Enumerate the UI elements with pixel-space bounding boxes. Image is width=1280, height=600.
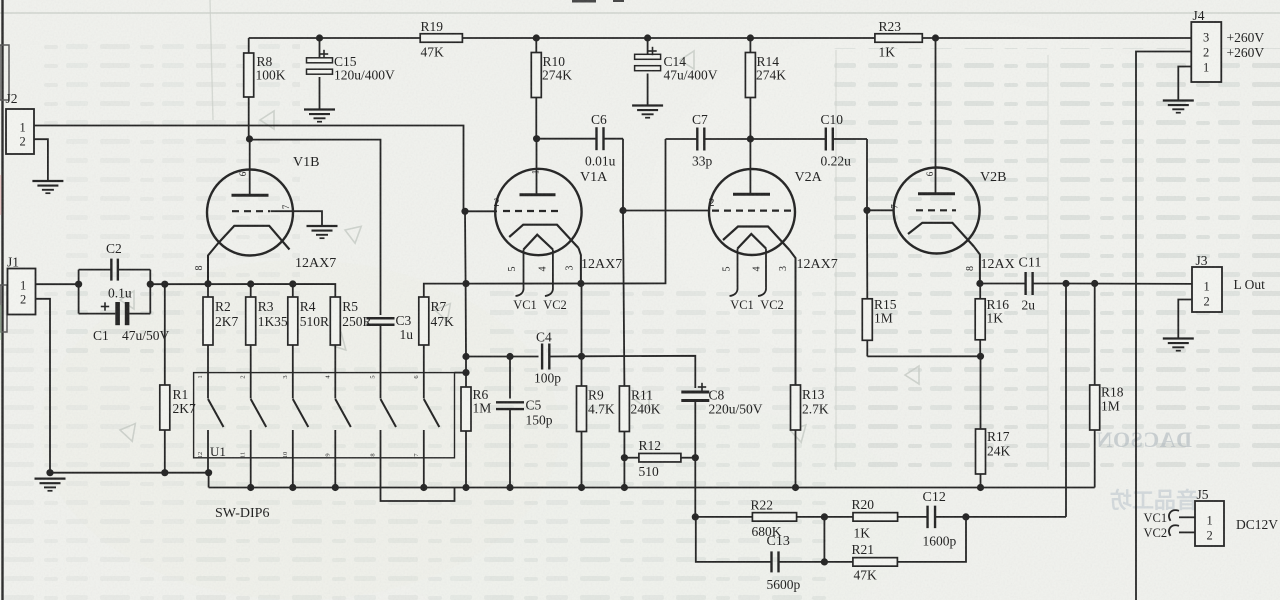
pin J1-1	[20, 279, 26, 293]
wire +260V rail mid	[462, 37, 875, 39]
junction C5 bottom	[506, 484, 513, 491]
label R12 510	[639, 438, 662, 479]
junction R18 top	[1091, 280, 1098, 287]
label R17 24K	[987, 429, 1011, 459]
switch U1 blade 6	[424, 399, 440, 427]
label J3	[1196, 253, 1208, 268]
wire ground bus jog	[208, 473, 210, 488]
resistor R15	[862, 299, 872, 357]
connector J1	[8, 269, 36, 315]
wire R15 to R16 node	[867, 355, 980, 357]
resistor R23	[875, 34, 922, 43]
junction switch ground	[247, 484, 254, 491]
label C1 47u/50V	[122, 328, 170, 343]
junction rail-C14	[644, 34, 651, 41]
resistor R1	[160, 284, 170, 473]
wire R22-R20 to R21	[823, 517, 825, 562]
junction R11-R12	[621, 454, 628, 461]
wire U1 switch bottom	[334, 430, 336, 488]
junction C1-C2 right	[147, 281, 154, 288]
junction R6 top	[462, 353, 469, 360]
resistor R6	[461, 357, 471, 488]
wire V1B grid to ground	[271, 211, 323, 226]
junction rail-R14	[747, 34, 754, 41]
capacitor C15	[307, 38, 333, 110]
pin U1-5	[370, 375, 377, 378]
junction V2B cathode out	[976, 280, 983, 287]
V1A grid	[503, 210, 559, 212]
wire J4 pin2 B+ riser	[1136, 52, 1191, 600]
resistor R22	[752, 513, 796, 522]
resistor R7	[419, 297, 429, 399]
V2A heater	[738, 234, 767, 249]
label C15 120u/400V	[334, 54, 395, 83]
capacitor C4	[542, 344, 581, 370]
junction C12 right	[962, 513, 969, 520]
label +260V a	[1227, 30, 1265, 45]
label R4 510R	[300, 299, 329, 329]
junction V1A cathode	[577, 280, 584, 287]
wire V1A heater pin4	[545, 250, 553, 297]
wire +260V rail right	[922, 37, 1191, 39]
wire C6 to grid V2A	[622, 139, 624, 211]
connector J4	[1191, 22, 1221, 82]
pin J4-2	[1203, 46, 1209, 60]
pin J4-3	[1203, 31, 1209, 45]
junction switch ground	[332, 484, 339, 491]
tube V2B envelope	[894, 168, 980, 254]
V1A plate	[520, 193, 556, 196]
label J2	[6, 91, 18, 106]
ground J2	[32, 181, 63, 193]
junction R22-R20	[821, 513, 828, 520]
wire J1 pin1 to C2	[36, 283, 79, 285]
label V2B	[980, 170, 1006, 185]
pin U1-10	[282, 452, 289, 459]
pin V2A-4	[752, 267, 763, 272]
junction R6 U1 tie	[462, 369, 469, 376]
wire V2A cathode lead	[790, 250, 796, 385]
ground V1B grid	[307, 226, 338, 238]
junction R9 top	[578, 353, 585, 360]
label R20 1K	[852, 497, 875, 541]
label V2B 12AX7	[981, 257, 1015, 272]
label R5 250R	[342, 299, 371, 329]
label C4 100p	[534, 330, 561, 386]
label V2A	[795, 170, 823, 185]
junction C5 top	[506, 353, 513, 360]
capacitor C11	[980, 272, 1066, 295]
capacitor C3	[367, 318, 395, 398]
wire V1B plate lead	[249, 139, 251, 194]
wire C12 to riser	[966, 516, 1066, 518]
wire +260V rail top	[249, 37, 421, 39]
net VC2 label	[543, 298, 567, 312]
connector J5	[1195, 501, 1224, 546]
wire U1 switch bottom	[292, 430, 294, 488]
wire R12 right	[681, 457, 695, 459]
pin J3-2	[1204, 295, 1210, 309]
pin V1B-8	[194, 266, 205, 271]
resistor R2	[203, 284, 213, 399]
label C5 150p	[526, 398, 553, 428]
V2B cathode	[908, 223, 974, 247]
wire output to J3	[1066, 283, 1192, 285]
ground C15	[304, 110, 335, 122]
wire V2B grid wire	[867, 209, 894, 211]
label SW-DIP6	[215, 506, 269, 521]
capacitor C14	[635, 38, 661, 106]
junction C8-feedback	[692, 513, 699, 520]
pin J2-1	[20, 121, 26, 135]
pin J1-2	[20, 293, 26, 307]
net VC1 label V2A	[730, 298, 754, 312]
V1A heater	[524, 235, 553, 250]
pin V1B-6	[238, 171, 248, 176]
label R18 1M	[1101, 385, 1124, 414]
junction input-R7-cathode node	[462, 280, 469, 287]
junction V1B cathode bus	[204, 280, 211, 287]
junction R9 bottom	[578, 484, 585, 491]
resistor R13	[791, 385, 801, 488]
pin J2-2	[20, 135, 26, 149]
resistor R14	[745, 38, 755, 139]
label R2 2K7	[215, 299, 238, 329]
label C12 1600p	[923, 490, 957, 549]
pin V2B-7	[890, 204, 900, 209]
wire J4 pin1 ground	[1178, 67, 1191, 101]
net VC2 label V2A	[760, 298, 784, 312]
resistor R12	[639, 453, 681, 462]
wire U1 sw6 bottom	[423, 430, 425, 488]
pin V1B-7	[281, 204, 291, 209]
label V1B 12AX7	[295, 256, 336, 271]
label R10 274K	[542, 54, 572, 83]
switch U1 blade 2	[251, 399, 267, 427]
V2B plate	[918, 192, 955, 195]
V2A grid	[712, 210, 792, 212]
resistor R9	[577, 284, 587, 488]
label C2 0.1u	[108, 286, 132, 301]
wire J2 input line	[34, 126, 464, 212]
junction R16 bottom node	[977, 353, 984, 360]
label R6 1M	[473, 387, 492, 416]
label R14 274K	[756, 54, 786, 83]
pin U1-6	[413, 375, 420, 379]
label C14 47u/400V	[664, 54, 718, 83]
wire U1 to R6	[455, 372, 467, 374]
junction V2A plate node	[747, 135, 754, 142]
wire R12 left	[624, 457, 639, 459]
junction R3 top	[247, 280, 254, 287]
wire V1A heater pin5	[516, 250, 524, 297]
capacitor C2	[79, 259, 151, 281]
V2A plate	[733, 193, 770, 196]
switch U1 blade 3	[293, 399, 309, 427]
junction sw6 ground	[420, 484, 427, 491]
junction V2A grid node	[619, 207, 626, 214]
pin V2A-5	[722, 267, 733, 272]
junction V2B grid node	[863, 207, 870, 214]
pin U1-1	[197, 375, 204, 378]
label V1A 12AX7	[581, 257, 622, 272]
wire V2A heater pin5	[730, 249, 738, 297]
wire V2B cathode lead	[974, 247, 980, 284]
label C3 1u	[396, 313, 414, 342]
junction C12 net tap	[1062, 280, 1069, 287]
junction R11 bottom	[621, 484, 628, 491]
pin U1-8	[370, 453, 377, 456]
wire R11 riser	[623, 211, 624, 387]
wire V1A grid wire	[465, 210, 497, 212]
ground J4	[1163, 101, 1194, 113]
V1A cathode	[509, 225, 578, 248]
label V1B	[293, 155, 319, 170]
label C6 0.01u	[585, 112, 616, 169]
pin V2B-6	[925, 171, 935, 176]
wire J3 pin2 ground	[1178, 300, 1192, 339]
wire C13 branch	[696, 517, 772, 562]
pin J5-1	[1207, 514, 1213, 528]
label R15 1M	[874, 297, 897, 326]
capacitor C12	[898, 506, 966, 529]
label R21 47K	[852, 542, 878, 583]
label V2A 12AX7	[797, 257, 838, 272]
V1A plate lead	[536, 139, 538, 194]
net VC2 J5	[1144, 525, 1196, 540]
pin U1-11	[240, 452, 247, 458]
node V1A grid junction	[461, 208, 468, 215]
wire C2 loop right riser	[149, 270, 151, 314]
label R9 4.7K	[588, 388, 615, 417]
wire U1 sw5 bottom detour	[381, 430, 455, 501]
capacitor C6	[537, 127, 623, 150]
junction sw1 ground	[205, 469, 212, 476]
pin V2B-8	[965, 266, 976, 271]
wire R7 top	[424, 284, 467, 297]
capacitor C5	[496, 357, 524, 488]
junction R1 top	[161, 281, 168, 288]
wire C13-R21 gap	[824, 561, 853, 563]
wire C10 to V2B grid	[866, 139, 868, 210]
junction rail-V2B plate	[932, 34, 939, 41]
label R19 47K	[421, 19, 445, 60]
wire R15 riser	[866, 210, 868, 298]
wire V1B plate to C3	[250, 140, 381, 315]
resistor R5	[330, 297, 340, 399]
junction C13-R21	[821, 558, 828, 565]
wire U1 sw1 bottom	[207, 430, 209, 473]
label C2	[106, 241, 122, 256]
resistor R11	[619, 386, 629, 488]
label R3 1K35	[258, 299, 288, 329]
pin J3-1	[1204, 280, 1210, 294]
wire R21 to C12 node	[897, 517, 966, 562]
wire input bus	[150, 284, 335, 297]
pin U1-2	[240, 375, 247, 378]
pin U1-4	[324, 375, 331, 379]
label +260V b	[1227, 45, 1265, 60]
pin V1A-2	[494, 195, 500, 209]
label C13 5600p	[767, 534, 801, 592]
pin J5-2	[1207, 529, 1213, 543]
resistor R18	[1090, 284, 1100, 488]
capacitor C13	[772, 551, 825, 572]
label R22 680K	[751, 498, 782, 540]
label C1	[93, 328, 109, 343]
junction R12-C8	[692, 454, 699, 461]
resistor R8	[244, 38, 254, 139]
net VC1 J5	[1144, 510, 1196, 525]
pin U1-9	[324, 453, 331, 456]
capacitor C7	[666, 128, 751, 151]
label R16 1K	[987, 297, 1010, 326]
capacitor C10	[750, 128, 867, 151]
resistor R21	[853, 558, 898, 567]
label C10 0.22u	[821, 112, 852, 169]
label L Out	[1234, 277, 1266, 292]
pin V1A-3	[565, 266, 576, 271]
resistor R10	[531, 38, 541, 139]
junction rail-R10	[533, 34, 540, 41]
wire J1 pin2 down	[36, 299, 51, 473]
wire feedback line left	[695, 516, 752, 518]
wire C2 loop left riser	[78, 270, 80, 314]
V2A plate lead	[749, 139, 751, 194]
resistor R4	[288, 284, 298, 399]
connector J3	[1192, 267, 1222, 312]
wire J2 pin2 to ground	[34, 139, 48, 181]
pin V2A-3	[778, 266, 789, 271]
pin U1-7	[413, 453, 420, 457]
label C7 33p	[692, 112, 713, 169]
junction R13 bottom	[792, 484, 799, 491]
wire cathode bypass line	[582, 356, 696, 388]
junction C2 left	[75, 281, 82, 288]
junction R17 bottom	[977, 484, 984, 491]
wire V2A heater pin4	[758, 249, 766, 297]
label R1 2K7	[173, 387, 196, 416]
junction rail-C15	[316, 34, 323, 41]
label R7 47K	[431, 299, 455, 329]
pin V1A-4	[538, 267, 549, 272]
label V1A	[580, 170, 608, 185]
wire grid node line	[466, 356, 539, 358]
pin V2A-2	[709, 195, 715, 209]
tube V2A envelope	[709, 169, 795, 255]
junction R6 bottom	[462, 484, 469, 491]
label U1	[210, 444, 226, 459]
switch U1 blade 1	[208, 399, 224, 427]
wire cathode link	[466, 139, 666, 284]
switch U1 blade 4	[335, 399, 351, 427]
junction R1 bottom	[161, 469, 168, 476]
wire U1 switch bottom	[250, 430, 252, 488]
capacitor C1	[79, 302, 151, 325]
wire C12 net riser	[1065, 284, 1067, 517]
wire R22-R20	[797, 516, 853, 518]
resistor R20	[853, 513, 898, 522]
label R23 1K	[879, 19, 902, 60]
connector J2	[6, 109, 34, 154]
pin U1-3	[282, 375, 289, 378]
label J4	[1193, 8, 1205, 23]
V1B cathode	[219, 226, 290, 250]
tube V1B envelope	[207, 170, 293, 256]
wire V1B cathode lead	[208, 243, 219, 284]
capacitor C8	[681, 383, 709, 517]
wire grid riser	[465, 211, 466, 356]
label R13 2.7K	[802, 387, 829, 417]
label J5	[1197, 487, 1209, 502]
V1B grid	[232, 210, 270, 212]
wire V1A cathode lead	[579, 248, 581, 284]
junction V1B plate node	[246, 135, 253, 142]
label DC12V	[1236, 517, 1278, 532]
wire ground bus	[209, 487, 1095, 489]
V2A cathode	[723, 227, 790, 251]
label J1	[7, 255, 19, 270]
resistor R19	[420, 34, 462, 43]
pin U1-12	[197, 452, 204, 459]
ground C14	[632, 106, 663, 118]
pin V1A-5	[507, 267, 518, 272]
wire V2A grid wire	[623, 210, 710, 212]
V2B grid	[916, 209, 956, 211]
junction R4 top	[289, 280, 296, 287]
tube V1A envelope	[495, 169, 581, 255]
switch U1 body	[194, 373, 455, 458]
resistor R3	[246, 284, 256, 399]
resistor R16	[975, 284, 985, 357]
junction V1A plate node	[533, 135, 540, 142]
wire left ground bus	[50, 472, 209, 474]
junction J1 ground node	[46, 469, 53, 476]
V1B plate	[232, 194, 269, 197]
switch U1 blade 5	[381, 399, 397, 427]
ground J1	[35, 479, 66, 491]
junction switch ground	[289, 484, 296, 491]
label C11 2u	[1019, 256, 1042, 313]
net VC1 label	[513, 298, 537, 312]
resistor R17	[976, 356, 986, 487]
label R11 240K	[631, 388, 661, 417]
wire V2B plate lead	[935, 38, 937, 193]
label R8 100K	[256, 54, 286, 83]
pin V1A-1	[531, 170, 541, 175]
ground J3	[1163, 339, 1194, 351]
label C8 220u/50V	[709, 388, 763, 417]
pin J4-1	[1203, 61, 1209, 75]
